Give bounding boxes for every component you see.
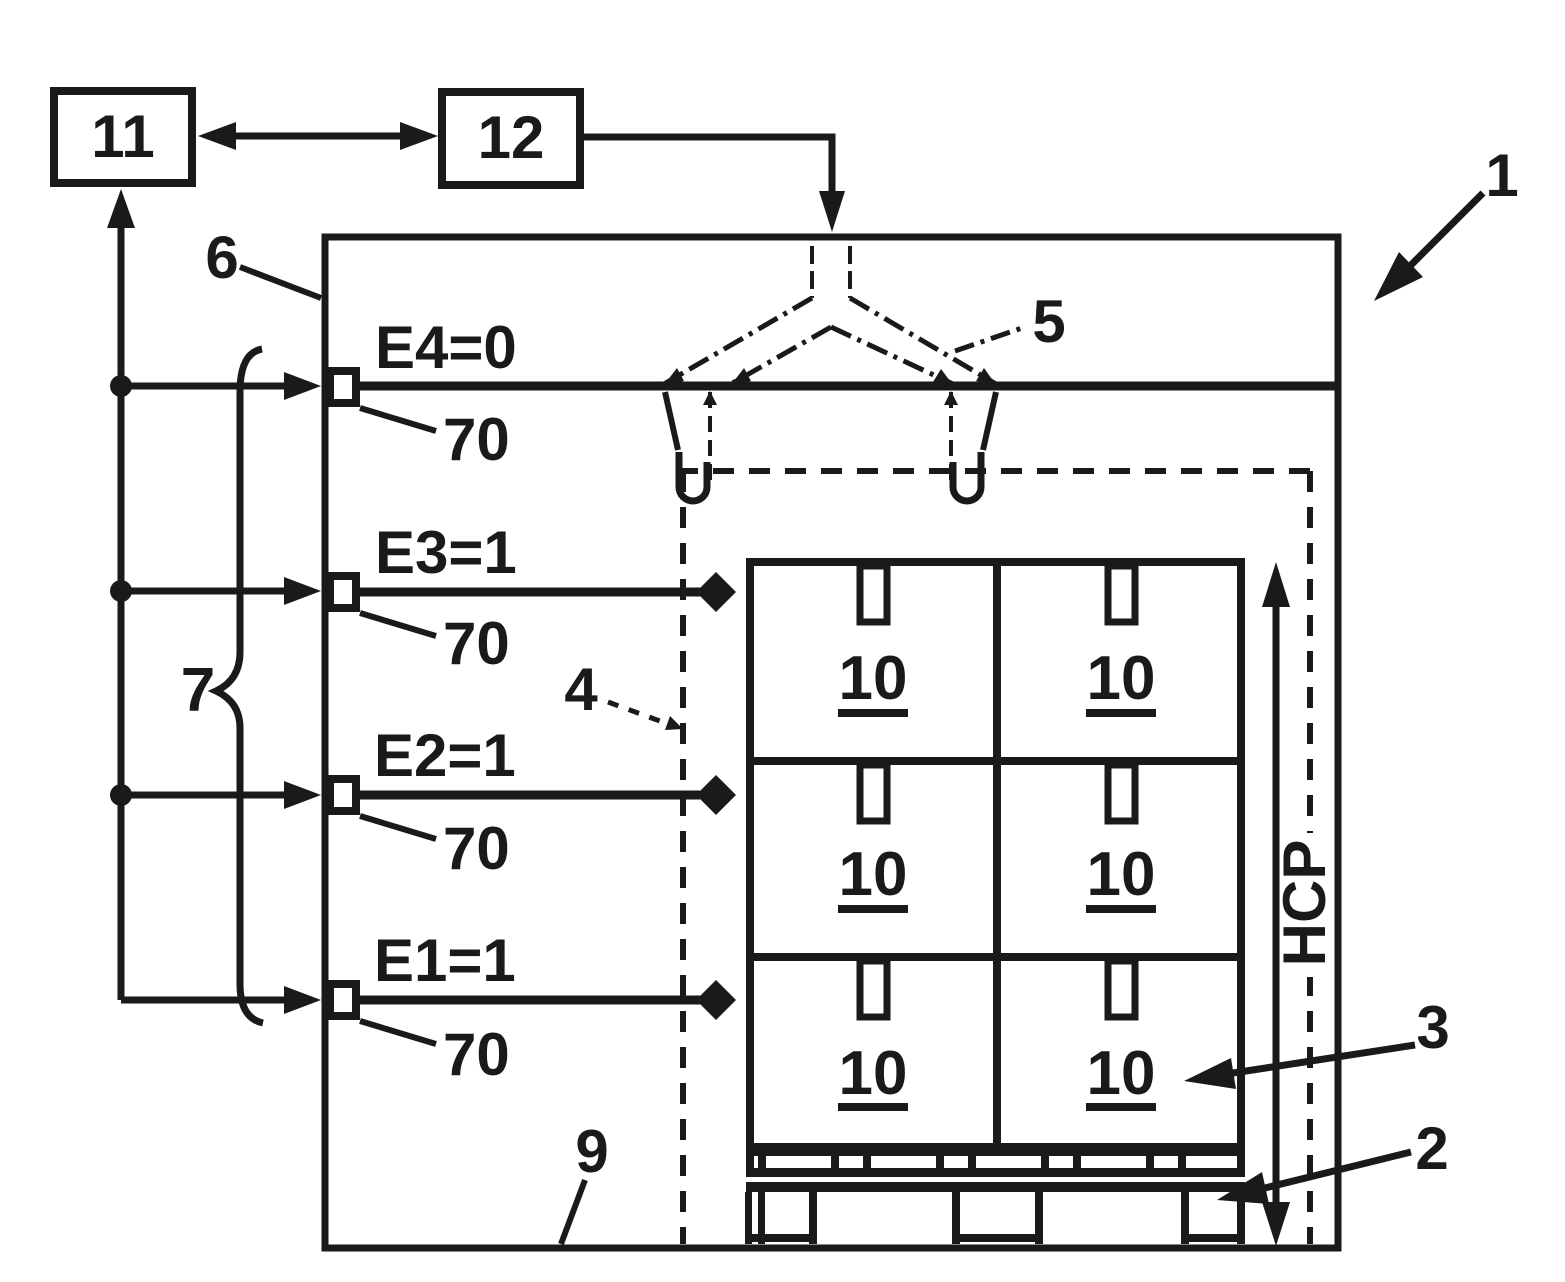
svg-text:10: 10 <box>1087 840 1156 909</box>
svg-text:10: 10 <box>839 644 908 713</box>
wire E4 <box>121 383 287 390</box>
gripper right hook <box>953 452 981 501</box>
wire 11-12 double arrow <box>234 133 402 140</box>
svg-text:10: 10 <box>839 1039 908 1108</box>
leader 70 E1 <box>360 1021 436 1044</box>
stack divider row1 <box>750 757 1241 765</box>
leader 70 E4 <box>360 408 436 431</box>
gripper left hook <box>679 452 707 501</box>
sensor 70 E1 <box>330 984 356 1016</box>
svg-text:70: 70 <box>443 406 510 473</box>
beam E3 end diamond <box>696 572 736 612</box>
crane trolley dashed guides <box>810 246 814 298</box>
wire to 11 <box>118 228 125 1000</box>
package slots <box>860 566 887 622</box>
sensor 70 E3 <box>330 576 356 608</box>
svg-text:10: 10 <box>1087 1039 1156 1108</box>
crane cable outer-left <box>664 298 812 384</box>
pallet 2 <box>745 1148 1245 1244</box>
wire E2 <box>121 792 287 799</box>
crane cable outer-right <box>850 298 996 384</box>
gripper left guide <box>708 392 712 487</box>
svg-text:10: 10 <box>839 840 908 909</box>
svg-text:10: 10 <box>1087 644 1156 713</box>
svg-text:6: 6 <box>205 224 238 291</box>
wire E3 <box>121 588 287 595</box>
crane cable inner-right <box>831 327 953 384</box>
target zone dashed right <box>1307 471 1313 1244</box>
svg-text:70: 70 <box>443 815 510 882</box>
beam E3 <box>358 588 700 597</box>
wire 12 to container <box>584 137 832 195</box>
arrow 3 <box>1233 1045 1415 1073</box>
node E2 junction <box>110 784 132 806</box>
HCP measure arrow <box>1273 600 1280 1208</box>
stack of packages outer <box>750 562 1241 1147</box>
node E4 junction <box>110 375 132 397</box>
svg-text:E1=1: E1=1 <box>374 927 516 994</box>
node E3 junction <box>110 580 132 602</box>
svg-text:HCP: HCP <box>1271 840 1338 967</box>
wire E1 <box>121 997 287 1004</box>
svg-text:4: 4 <box>564 656 598 723</box>
svg-text:3: 3 <box>1416 994 1449 1061</box>
crane cable inner-left <box>731 327 831 384</box>
box 11 <box>54 91 192 183</box>
leader 4 <box>608 702 668 724</box>
svg-text:9: 9 <box>575 1118 608 1185</box>
svg-text:E3=1: E3=1 <box>375 519 517 586</box>
svg-text:E4=0: E4=0 <box>375 314 517 381</box>
svg-text:12: 12 <box>478 104 545 171</box>
sensor 70 E4 <box>330 371 356 403</box>
svg-text:E2=1: E2=1 <box>374 722 516 789</box>
gripper right guide <box>949 392 953 487</box>
sensor 70 E2 <box>330 779 356 811</box>
leader 70 E3 <box>360 613 436 636</box>
svg-text:11: 11 <box>91 103 154 170</box>
gripper right slant <box>983 392 996 450</box>
beam E1 end diamond <box>696 980 736 1020</box>
leader 9 <box>561 1180 585 1244</box>
svg-text:70: 70 <box>443 1021 510 1088</box>
HCP label <box>1284 833 1330 977</box>
beam E1 <box>358 996 700 1005</box>
target zone dashed top <box>677 468 1310 474</box>
svg-text:5: 5 <box>1032 288 1065 355</box>
box 12 <box>442 92 580 185</box>
stack divider vertical <box>993 562 1001 1147</box>
leader 5 <box>955 328 1022 351</box>
beam E2 end diamond <box>696 775 736 815</box>
svg-text:2: 2 <box>1415 1115 1448 1182</box>
svg-text:7: 7 <box>181 656 215 725</box>
arrow 1 <box>1404 193 1483 272</box>
svg-text:1: 1 <box>1485 142 1518 209</box>
gripper left slant <box>665 392 678 450</box>
target zone dashed left <box>680 471 686 1244</box>
leader 70 E2 <box>360 816 436 839</box>
container 6 <box>325 237 1338 1248</box>
stack divider row2 <box>750 953 1241 961</box>
beam E2 <box>358 791 700 800</box>
beam E4 <box>358 382 1335 391</box>
leader 6 <box>240 267 321 298</box>
brace 7 <box>216 349 263 1023</box>
svg-text:70: 70 <box>443 610 510 677</box>
arrow 2 <box>1265 1152 1411 1188</box>
